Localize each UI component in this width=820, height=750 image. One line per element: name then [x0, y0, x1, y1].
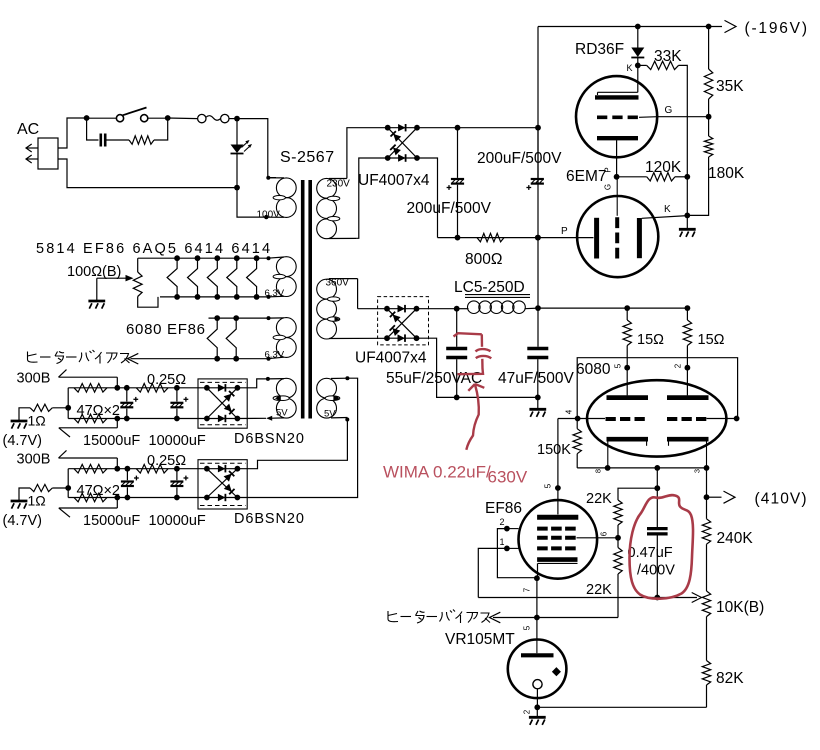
label P pin rotated — [604, 167, 613, 172]
arrow -196V — [725, 20, 737, 32]
resistor 15ohm left — [623, 308, 631, 395]
label EF86 pin7 — [523, 587, 532, 592]
svg-text:150K: 150K — [537, 442, 571, 458]
capacitor snubber C — [101, 134, 129, 147]
wire fuse to node — [229, 118, 237, 120]
node row3 cap1 bot a — [114, 416, 120, 422]
label EF86 pin2 — [500, 517, 505, 527]
red annotation arrow — [466, 384, 484, 450]
node row4 cap2 bot — [174, 495, 180, 501]
wire diode to plate — [637, 58, 639, 93]
node neg rail cap2 — [535, 125, 541, 131]
heater rail row1 top — [138, 257, 268, 259]
svg-text:240K: 240K — [717, 530, 754, 547]
svg-text:1Ω: 1Ω — [28, 493, 46, 509]
rail 6080 plates — [538, 307, 687, 309]
capacitor 200uF/500V a — [447, 128, 465, 238]
node row3 cap1 top a — [114, 385, 120, 391]
svg-text:5: 5 — [544, 483, 553, 488]
label 33K — [654, 48, 682, 65]
node row4 cap2 top — [174, 466, 180, 472]
wire 180K top — [708, 117, 710, 136]
label 0.25ohm row3 — [147, 372, 186, 388]
coil mid tap arrow 5V right — [325, 396, 339, 401]
AC plug prong arrow upper — [26, 144, 38, 152]
pointer 4.7V row4 — [59, 498, 118, 518]
capacitor 10000uF row4 — [170, 469, 188, 498]
node EF86 pin1 — [504, 546, 510, 552]
wire 120K to right — [675, 176, 687, 178]
gas dot VR105MT — [552, 667, 561, 676]
resistor 1ohm row4 — [30, 484, 68, 491]
winding 5V right — [317, 378, 348, 418]
label 5V right — [324, 409, 336, 420]
wire 35K to G node — [708, 99, 710, 117]
ground 47uF — [529, 397, 546, 417]
svg-text:120K: 120K — [645, 159, 682, 176]
wire EF86 cathode down — [536, 578, 538, 639]
ground 1ohm row3 — [11, 421, 28, 429]
label pin5 6080 — [614, 363, 623, 368]
svg-text:(410V): (410V) — [755, 491, 808, 508]
svg-text:360V: 360V — [326, 278, 350, 289]
svg-text:VR105MT: VR105MT — [445, 631, 515, 648]
heater bias wire row2 — [131, 358, 268, 360]
node EF86 cathode — [534, 575, 540, 581]
svg-text:100V: 100V — [257, 210, 281, 221]
svg-text:10000uF: 10000uF — [149, 513, 206, 529]
cathode 6080 right — [667, 439, 709, 468]
resistor 47ohm upper row4 — [74, 464, 107, 473]
label P pin 6EM7 lower — [561, 226, 568, 237]
AC plug prong arrow lower — [26, 155, 38, 163]
node primary bottom end — [264, 215, 268, 219]
label 82K — [716, 670, 744, 687]
svg-text:D6BSN20: D6BSN20 — [234, 431, 305, 447]
node 120K 33K junction — [684, 174, 690, 180]
node lamp bottom — [234, 185, 240, 191]
label 15000uF row4 — [83, 513, 140, 529]
label 4.7V row4 — [3, 513, 43, 529]
wire bridge3 to 5V top — [237, 379, 268, 388]
node row3 cap1 top b — [124, 385, 130, 391]
cathode 6EM7 upper — [597, 136, 638, 140]
tube 6EM7 lower envelope — [577, 196, 658, 277]
label 800ohm — [465, 251, 502, 268]
transformer S-2567 label — [280, 149, 335, 166]
wire K 6EM7 lower — [642, 216, 688, 219]
svg-text:3: 3 — [693, 469, 702, 473]
label heater bias row2 — [28, 350, 130, 364]
wire output right vertical — [706, 468, 708, 519]
node heater1 t2 — [195, 255, 201, 261]
label 1ohm row3 — [28, 412, 46, 428]
svg-text:K: K — [627, 63, 633, 73]
node cathode left — [605, 465, 611, 471]
heater EF86b — [226, 318, 236, 359]
label 10000uF row4 — [149, 513, 206, 529]
heater bias arrow row2 — [128, 353, 139, 364]
rail P 6EM7 — [438, 237, 594, 239]
node 6EM7 interstage — [614, 174, 620, 180]
label tube list row1 — [36, 241, 272, 257]
potentiometer 100ohm — [133, 258, 158, 307]
wire G 6EM7 upper — [657, 116, 708, 118]
grid 6080 right — [667, 417, 707, 421]
label VR pin5 — [523, 625, 532, 630]
svg-text:200uF/500V: 200uF/500V — [407, 200, 492, 217]
node grid right — [734, 416, 740, 422]
rectifier D6BSN20 box row3 — [198, 379, 247, 428]
wire node to primary top — [237, 119, 276, 178]
cathode EF86 — [537, 560, 577, 579]
node heater1 b2 — [195, 294, 201, 300]
label pin4 6080 — [565, 409, 574, 414]
wire bridge4 to 5Vright bottom — [237, 418, 347, 469]
capacitor 0.47uF/400V — [647, 529, 668, 534]
node 55uF bottom — [454, 395, 460, 401]
node EF86 pin2 — [504, 526, 510, 532]
label 0.47uF — [628, 545, 673, 561]
node screen EF86 — [615, 535, 621, 541]
label RD36F — [575, 41, 624, 58]
wire snubber left drop — [87, 118, 99, 140]
wire row3 left vertical — [67, 388, 69, 419]
grid 6080 wire right — [707, 418, 738, 420]
resistor 47ohm lower row3 — [74, 414, 107, 423]
wire main negative vertical — [537, 27, 539, 309]
node cathode right — [704, 465, 710, 471]
node heater bias tap — [534, 615, 540, 621]
svg-text:10000uF: 10000uF — [149, 433, 206, 449]
capacitor 200uF/500V b — [526, 128, 544, 190]
svg-text:2: 2 — [674, 363, 683, 368]
wire bridge2 rb route — [417, 338, 457, 397]
label -196V — [745, 20, 809, 37]
winding secondary 360V — [317, 279, 387, 339]
svg-text:EF86: EF86 — [485, 500, 522, 517]
label EF86 pin6 — [600, 531, 609, 536]
switch SW1 — [116, 108, 147, 122]
label EF86 pin5 — [544, 483, 553, 488]
label 55uF/250VAC — [386, 370, 482, 387]
ground K 6EM7 — [679, 215, 696, 237]
wire bridge2 rt to 55uF — [417, 308, 457, 310]
svg-text:0.25Ω: 0.25Ω — [147, 453, 186, 469]
node VR cathode bottom — [534, 704, 540, 710]
resistor 82K — [702, 661, 710, 686]
svg-text:15Ω: 15Ω — [698, 332, 725, 348]
node neg rail choke — [535, 305, 541, 311]
wire 410V vertical lower — [656, 536, 658, 598]
svg-text:2: 2 — [500, 517, 505, 527]
wire 230V bottom to bridge — [357, 158, 388, 238]
grid 6080 wire left — [558, 418, 605, 420]
label 6.3V row1 — [265, 288, 285, 299]
svg-text:UF4007x4: UF4007x4 — [355, 350, 427, 367]
wire 1ohm to ground row4 — [19, 488, 30, 501]
resistor 240K — [702, 519, 710, 544]
red annotation film cap sketch — [454, 333, 492, 374]
node 33K tap — [635, 63, 641, 69]
node EF86 pin5 — [555, 485, 561, 491]
winding heater 6.3V row1 — [268, 257, 296, 297]
label 22K lower — [586, 582, 612, 598]
label 5V left — [276, 408, 288, 419]
wire 1ohm to ground row3 — [19, 408, 30, 421]
label WIMA red — [383, 463, 491, 482]
label 47ohmx2 row4 — [77, 483, 121, 499]
svg-text:22K: 22K — [586, 491, 612, 507]
label 630V red — [488, 468, 528, 487]
capacitor 15000uF row3 — [120, 388, 138, 419]
tube 6EM7 upper envelope — [576, 76, 657, 157]
lamp NE neon indicator — [231, 140, 253, 154]
label /400V — [637, 563, 675, 579]
label 300B row3 — [17, 371, 51, 387]
label K RD36F — [627, 63, 633, 73]
svg-text:47Ω×2: 47Ω×2 — [77, 403, 121, 419]
label 230V — [327, 179, 351, 190]
svg-text:10K(B): 10K(B) — [716, 599, 764, 616]
wire 240K to pot — [706, 544, 708, 591]
resistor 1ohm row3 — [30, 404, 68, 411]
svg-text:(4.7V): (4.7V) — [3, 513, 43, 529]
resistor 47ohm lower row4 — [74, 493, 107, 502]
pot wiper 10K — [657, 593, 701, 603]
svg-text:5V: 5V — [276, 408, 288, 419]
label 6EM7 — [566, 168, 607, 185]
wire cathode to node — [616, 140, 618, 177]
pointer 300B row4 — [59, 450, 118, 468]
svg-text:AC: AC — [17, 121, 39, 138]
resistor 120K wire — [617, 176, 647, 178]
label 100ohm pot — [67, 264, 121, 280]
node divider tap — [654, 595, 660, 601]
label 1ohm row4 — [28, 493, 46, 509]
node row4 cap1 top b — [125, 466, 131, 472]
capacitor 15000uF row4 — [121, 469, 139, 498]
wire lamp to bottom rail — [236, 154, 238, 188]
resistor 15ohm right — [683, 308, 691, 395]
rail -196V top — [538, 26, 722, 28]
rail row3 top — [68, 387, 207, 389]
node top rail 35K — [706, 24, 712, 30]
svg-text:RD36F: RD36F — [575, 41, 624, 58]
wire EF86 g3 to cathode — [497, 529, 537, 578]
node G divider — [706, 114, 712, 120]
node heater1 b5 — [254, 294, 260, 300]
label 15ohm left — [637, 332, 664, 348]
label 360V — [326, 278, 350, 289]
svg-text:1Ω: 1Ω — [28, 412, 46, 428]
label 47ohmx2 row3 — [77, 403, 121, 419]
rectifier UF4007 bridge2 — [384, 305, 419, 342]
node row4 mid — [65, 485, 71, 491]
wire EF86 plate to grid node — [557, 419, 559, 515]
label UF4007x4 bridge2 — [355, 350, 427, 367]
grid3 EF86 — [507, 528, 576, 530]
node row4 cap1 bot a — [114, 495, 120, 501]
svg-text:UF4007x4: UF4007x4 — [358, 172, 430, 189]
grid1 EF86 — [507, 547, 576, 549]
wire grid loop box — [577, 358, 737, 419]
svg-text:/400V: /400V — [637, 563, 675, 579]
node 55uF top — [454, 306, 460, 312]
label LC5-250D — [454, 279, 530, 297]
svg-text:15000uF: 15000uF — [83, 513, 140, 529]
svg-text:22K: 22K — [586, 582, 612, 598]
svg-text:2: 2 — [523, 709, 532, 714]
plate EF86 — [537, 515, 578, 520]
svg-text:1: 1 — [500, 537, 505, 547]
node switch right — [165, 115, 171, 121]
wire snubber right rise — [154, 118, 168, 140]
winding 5V left — [268, 378, 297, 418]
wire to switch — [89, 117, 116, 119]
svg-text:4: 4 — [565, 409, 574, 414]
svg-text:(-196V): (-196V) — [745, 20, 809, 37]
coil mid tap arrow 5V left — [275, 396, 289, 401]
cathode VR105MT — [533, 680, 542, 708]
wire bridge4 to 5Vright top — [237, 378, 357, 497]
resistor snubber R — [129, 136, 154, 144]
pot wiper arrow — [97, 275, 134, 282]
wire 360V top to bridge2 lt — [358, 308, 387, 310]
coil end mark 5V right top — [345, 376, 349, 380]
node row3 mid — [65, 405, 71, 411]
tube EF86 envelope — [519, 500, 598, 579]
pointer 4.7V row3 — [59, 419, 118, 438]
label 35K — [716, 78, 744, 95]
wire top rail to diode — [637, 27, 639, 48]
rectifier D6BSN20 bridge row3 — [204, 384, 240, 422]
wire plug to top rail — [58, 118, 87, 148]
wire switch to node — [148, 117, 168, 119]
rectifier D6BSN20 box row4 — [198, 460, 247, 509]
winding primary 100V — [266, 178, 296, 218]
heater rail row2 top — [209, 317, 268, 319]
fuse F1 — [198, 114, 229, 122]
svg-text:15000uF: 15000uF — [83, 433, 140, 449]
svg-text:K: K — [664, 204, 671, 215]
svg-text:35K: 35K — [716, 78, 744, 95]
node heater2 b2 — [233, 356, 239, 362]
heater EF86a — [188, 258, 198, 297]
node 15ohm left top — [624, 305, 630, 311]
label 100V — [257, 210, 281, 221]
node row3 cap2 bot — [174, 416, 180, 422]
label 6080 — [576, 361, 611, 378]
tube VR105MT envelope — [508, 640, 567, 699]
label 180K — [708, 165, 745, 182]
wire 410V vertical upper — [656, 468, 658, 527]
label EF86 — [485, 500, 522, 517]
grid 6EM7 lower — [616, 177, 618, 260]
heater bias arrow2 — [490, 612, 501, 623]
wire 6080 cathode bottom — [577, 467, 706, 469]
node heater2 t2 — [233, 315, 239, 321]
coil end mark 5V left bottom — [266, 416, 272, 421]
node cathode mid — [654, 465, 660, 471]
label 47uF/500V — [498, 370, 574, 387]
svg-text:P: P — [561, 226, 568, 237]
resistor 0.25ohm row3 — [136, 384, 168, 393]
red circle around 0.47uF — [630, 495, 694, 599]
wire divider tap line — [478, 597, 657, 599]
label 4.7V row3 — [3, 433, 43, 449]
label VR pin2 — [523, 709, 532, 714]
node top rail diode — [635, 24, 641, 30]
wire 180K to K node — [687, 157, 708, 215]
wire pot wiper to ground — [96, 278, 98, 300]
label 6.3V row2 — [265, 350, 285, 361]
rail row3 bottom — [68, 418, 207, 420]
node 22K top tap — [654, 485, 660, 491]
wire 230V top to bridge — [347, 128, 388, 179]
node switch left — [84, 115, 90, 121]
wire 10K to 82K — [706, 617, 708, 661]
label 22K upper — [586, 491, 612, 507]
rail bottom ground — [537, 706, 706, 708]
node heater1 b4 — [234, 294, 240, 300]
svg-text:6080: 6080 — [576, 361, 611, 378]
label 200uF/500V lower — [407, 200, 492, 217]
svg-text:6EM7: 6EM7 — [566, 168, 607, 185]
ground 1ohm row4 — [11, 501, 28, 509]
svg-text:5V: 5V — [324, 409, 336, 420]
ground pot — [88, 301, 105, 309]
svg-text:300B: 300B — [17, 451, 51, 467]
heater 6414b — [247, 258, 257, 297]
capacitor 10000uF row3 — [170, 388, 188, 419]
wire 22K elbow top — [618, 488, 657, 500]
grid 6080 left — [606, 417, 646, 421]
label 150K — [537, 442, 571, 458]
svg-text:47Ω×2: 47Ω×2 — [77, 483, 121, 499]
grid 6EM7 upper — [597, 115, 657, 119]
svg-text:WIMA 0.22uF/: WIMA 0.22uF/ — [383, 463, 491, 482]
node cap200a top — [455, 125, 461, 131]
resistor 180K — [704, 136, 712, 157]
svg-text:0.25Ω: 0.25Ω — [147, 372, 186, 388]
diode RD36F — [631, 48, 644, 58]
label K 6EM7 lower — [664, 204, 671, 215]
node row4 cap1 top a — [114, 466, 120, 472]
resistor 22K lower — [614, 538, 622, 618]
wire node to fuse — [168, 117, 198, 120]
coil end marks 6.3V row2 — [267, 316, 271, 361]
coil end mark primary top — [266, 176, 270, 180]
label tube list row2 — [126, 321, 206, 338]
label 0.25ohm row4 — [147, 453, 186, 469]
node 15ohm right top — [685, 305, 691, 311]
resistor 47ohm upper row3 — [74, 384, 107, 393]
plate 6080 left — [607, 395, 649, 400]
choke LC5-250D — [457, 301, 538, 314]
heater 5814 — [167, 258, 177, 297]
arrow 410V — [707, 491, 736, 503]
svg-text:5: 5 — [614, 363, 623, 368]
node heater1 t4 — [234, 255, 240, 261]
node heater1 t1 — [174, 255, 180, 261]
coil end mark 5V right bottom — [345, 418, 349, 422]
label 120K — [645, 159, 682, 176]
label pin3 6080 — [693, 469, 702, 473]
wire 360V top to bridge2 — [357, 279, 359, 309]
svg-text:230V: 230V — [327, 179, 351, 190]
plate 6080 right — [667, 395, 709, 400]
